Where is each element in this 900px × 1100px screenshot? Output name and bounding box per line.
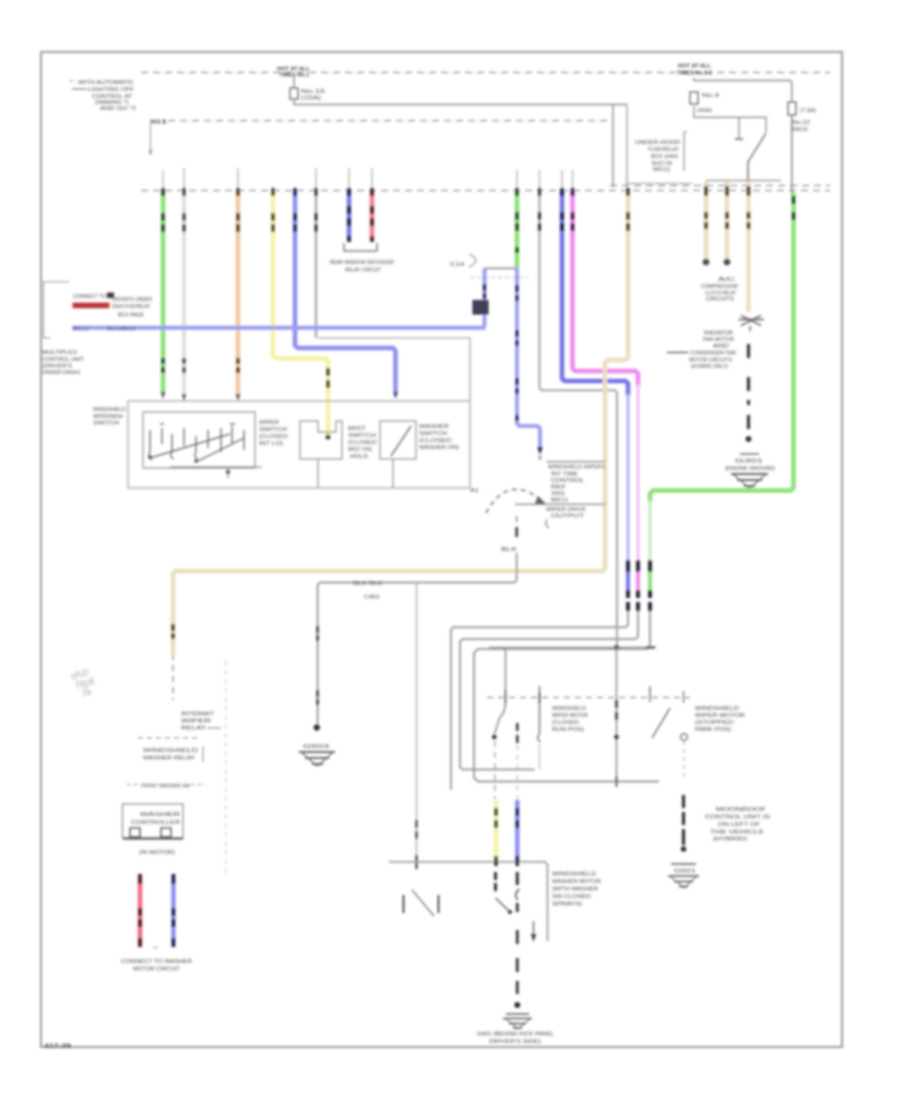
ground G301 [725,454,775,488]
svg-text:WASHER MOTOR: WASHER MOTOR [552,879,601,885]
under-hood fuse relay box outline [627,105,692,184]
wiper ground drop below micu [516,516,518,522]
wire BLU x295 bends to box3 [295,190,396,394]
washer feed text [181,712,221,732]
svg-text:BLU/BLK: BLU/BLK [107,327,136,333]
connector row dashed upper [610,185,830,187]
svg-text:ON LEFT OF: ON LEFT OF [718,822,761,828]
svg-text:FUSE/RELAY: FUSE/RELAY [648,147,679,153]
wire BLU bottom x517 [515,800,520,861]
tiny tick below pair [153,947,158,949]
svg-text:No.15: No.15 [301,89,325,95]
junction dot on bus [614,645,619,650]
end dot x727 [724,259,731,266]
box3 drop [392,459,394,488]
svg-text:(15A): (15A) [301,96,321,102]
dashes on x417 [415,820,417,869]
box1 label right [259,420,290,447]
svg-text:G401 (BEHIND KICK PANEL: G401 (BEHIND KICK PANEL [477,1032,554,1038]
blade diagonal [412,890,434,916]
svg-text:SWITCH: SWITCH [348,433,376,439]
arrow BLU into box3 [393,392,398,399]
svg-text:CONDENSER FAN: CONDENSER FAN [690,351,736,357]
junction dot washer ground [314,724,320,730]
coil dot end of YEL [325,434,330,439]
svg-text:(CLOSED:: (CLOSED: [419,438,454,444]
multiplex unit text block [42,350,85,376]
svg-text:CONTROL: CONTROL [551,478,584,484]
arrow BLU to MICU [537,447,543,455]
svg-text:No.22: No.22 [792,120,810,126]
dash on ground drop [515,527,518,537]
wire: fuse2 to connector [791,115,793,193]
svg-text:G501: G501 [674,869,696,875]
bottom switch text right [552,872,601,908]
contact dot [492,735,497,740]
wire BLU x517 lower to MICU [517,268,540,449]
wire TAN x727 [725,181,730,259]
dashes on WHT x184 [182,188,185,373]
svg-text:(WITH WASHER: (WITH WASHER [552,887,598,893]
inner box1 wiper switch [143,412,255,468]
micu block top rule [547,461,605,463]
wire BLU x349 stub pair [347,190,352,240]
svg-text:REAR WINDOW DEFOGGER: REAR WINDOW DEFOGGER [330,260,394,266]
connector row dashed main [141,190,830,192]
stub above connector x572 [572,170,574,190]
svg-text:SIG: SIG [551,491,565,497]
svg-text:WASHER ON): WASHER ON) [419,445,459,451]
svg-text:MICU): MICU) [653,167,670,173]
arrow GRN into box [161,392,166,399]
wire YEL x273 bends to box2 [273,190,328,438]
wire GRY x316 [315,190,317,338]
relay switch blade [748,133,766,162]
pin drop from switch [516,723,519,743]
svg-text:417-29: 417-29 [44,1043,71,1050]
svg-text:RUN POS): RUN POS) [552,727,584,733]
svg-text:RELAY: RELAY [181,726,207,732]
svg-text:IG1: IG1 [150,120,167,126]
dashes park switch [615,700,618,720]
svg-text:DRIVER'S UNDER: DRIVER'S UNDER [112,297,152,303]
pin 1 [130,828,140,837]
divider label row [127,784,206,790]
svg-text:RADIATOR: RADIATOR [704,331,733,337]
hot-at-all-times bus (dashed) [141,72,830,74]
dashes RED [138,874,142,947]
svg-text:FRONT WASHER SW: FRONT WASHER SW [141,784,190,790]
arrow stub below IG label [150,124,152,152]
switch assy text right [695,706,745,733]
svg-text:WASHER: WASHER [140,812,180,818]
radiator fan text block [667,331,736,371]
below-line BLU dash [516,872,519,885]
arrow WHT into box [182,394,187,401]
svg-text:INTERMIT: INTERMIT [181,712,215,718]
svg-text:RED FEED: RED FEED [75,304,105,310]
wire PNK x638 pale run [637,384,640,560]
svg-text:(HYBRID): (HYBRID) [713,837,747,843]
dashes on GRN x517 [515,188,518,253]
svg-text:(ENGINE GROUND): (ENGINE GROUND) [725,466,775,472]
svg-text:(IN MOTOR): (IN MOTOR) [139,850,175,856]
box1 contact dots [148,455,152,459]
arrow ORN into box [236,394,241,401]
svg-text:(DRIVER'S: (DRIVER'S [42,364,72,370]
box left label [93,407,126,427]
drop from bus x505 [495,648,506,735]
wire BLU bottom left [171,874,175,946]
wire TAN x628 upper [173,192,628,654]
svg-text:CONTROL UNIT IS: CONTROL UNIT IS [705,815,771,821]
dashes on washer ground [316,626,319,705]
inline connector block [473,301,488,315]
wire GRN right x793 [650,193,794,502]
connector row mid dashed [487,697,690,699]
svg-text:CIRCUITS: CIRCUITS [706,297,734,303]
dashes on GRY x316 [315,188,318,232]
svg-text:* : WITH AUTOMATIC: * : WITH AUTOMATIC [70,80,134,86]
relay contact tick [735,138,743,140]
dashes TAN x727 [725,186,728,229]
svg-text:SW CLOSED:: SW CLOSED: [552,894,592,900]
stub above connector x349 [348,168,350,190]
faint splice vertical x226 [225,661,227,876]
dashed link line [470,277,528,279]
connector dashes trio lower [628,590,650,611]
lamp ground dashes x683 [683,741,685,781]
dashes BLU bottom [516,808,519,866]
red feed arrow dot [107,293,114,299]
dashes on BLU x517 lower [515,285,518,421]
svg-text:SWITCH: SWITCH [419,431,447,437]
svg-text:DASH FUSE/RELAY: DASH FUSE/RELAY [112,304,150,310]
svg-text:SWITCH: SWITCH [259,427,287,433]
svg-text:CONNECT TO: CONNECT TO [73,294,107,300]
hook curve [516,889,520,900]
micu block bottom rule [515,503,606,505]
wire RED x372 stub pair [370,190,375,240]
wire TAN x748 [746,181,750,312]
connector bracket under pair [344,243,377,251]
svg-text:WIPER DRIVE: WIPER DRIVE [546,507,587,513]
svg-text:CONTROL UNIT: CONTROL UNIT [42,357,85,363]
svg-text:C401: C401 [364,595,380,601]
svg-text:MIST ON): MIST ON) [348,447,372,453]
svg-text:THE VEHICLE: THE VEHICLE [710,830,765,836]
svg-text:UNDER-DASH): UNDER-DASH) [42,370,80,376]
svg-text:LIGHTING OFF: LIGHTING OFF [88,87,135,93]
switch assy text mid [552,706,588,733]
wire GRY from GRN trio L3 [474,611,659,782]
svg-text:PARK POS): PARK POS) [695,727,731,733]
stub above connector x316 [315,168,317,190]
box2 label right [348,426,379,460]
svg-text:G301: G301 [735,459,763,465]
dashed arc link [486,489,544,513]
connector dashes trio upper [628,560,650,572]
svg-text:UNDER-HOOD: UNDER-HOOD [635,140,680,146]
wire PNK x572 [573,190,639,386]
svg-text:(CLOSED:: (CLOSED: [348,440,379,446]
park contact dot [614,735,619,740]
svg-text:WINDSHIELD: WINDSHIELD [695,706,739,712]
svg-text:BLK: BLK [501,547,518,553]
svg-text:WINDSHIELD: WINDSHIELD [552,706,586,712]
wire GRY x539 [540,190,618,648]
wire: drop to connector at x613 [612,105,614,188]
svg-text:G503: G503 [303,744,329,750]
dashes BLU2 [172,874,176,947]
svg-text:(CLOSED:: (CLOSED: [552,720,580,726]
micu text rows [548,465,605,504]
box3 label right [419,424,459,451]
svg-text:WIPER/WASH: WIPER/WASH [93,414,123,420]
wire BLU drop x485 [483,268,487,326]
svg-text:MOONROOF: MOONROOF [716,807,767,813]
under-hood box label [635,132,687,173]
svg-text:WINDSHIELD: WINDSHIELD [143,748,198,754]
svg-text:WIPER: WIPER [259,420,279,426]
wire YEL bottom x496 [494,800,499,861]
body connector bowtie [739,316,765,332]
svg-text:WINDSHIELD WIPERS: WINDSHIELD WIPERS [548,465,605,471]
svg-text:AND GO *2: AND GO *2 [100,106,136,112]
dashes on GRY x539 [538,188,541,231]
dot above G501 [681,846,687,852]
wire BLU x562 [562,190,628,396]
svg-text:INT LO): INT LO) [259,441,283,447]
pin bracket x539 [538,686,541,742]
washer control box [123,804,184,838]
feed bus y648 [489,647,656,649]
washer relay text [143,746,203,762]
svg-text:A1: A1 [470,488,479,494]
box3 switch blade [391,426,411,456]
relay output wire [747,161,749,181]
feed line y862 [389,862,548,941]
stub above connector x539 [539,170,541,190]
wire GRY from BLU trio L1 [451,611,628,790]
trio mid segments [626,572,630,590]
relay coil branch [694,106,739,138]
box1 internal contacts [149,424,244,462]
top-left note text block [70,80,136,112]
bus end tick [646,646,655,648]
svg-text:(HYBRID ONLY): (HYBRID ONLY) [691,364,728,370]
svg-text:SWITCH: SWITCH [93,421,119,427]
dashes on BLU x562 [560,188,564,231]
svg-text:TIMES No.3-2: TIMES No.3-2 [677,71,712,77]
wire GRY from PNK trio L2 [460,611,638,770]
svg-text:MULTIPLEX: MULTIPLEX [42,350,77,356]
switch blade yellow leg [496,898,512,913]
dashes on GRN x793 [792,196,795,220]
bus drop with dot [227,467,229,478]
svg-text:BOX PAGE: BOX PAGE [118,313,144,319]
ground G501 [668,864,699,888]
tick x539 [539,692,541,703]
red feed bar [73,303,110,309]
tick x683 [683,691,685,703]
wire GRN x650 pale run [649,500,652,560]
svg-text:MICU: MICU [551,498,568,504]
branch bracket left [44,282,70,338]
ground G503 [299,744,335,766]
below-line dashes YEL [494,872,497,891]
park switch x616 [616,648,618,782]
dashes on GRN x163 [161,188,164,373]
svg-text:SPRAYS): SPRAYS) [552,902,582,908]
stub above connector x562 [561,170,563,190]
svg-text:BACK: BACK [792,127,808,133]
dashes on YEL [273,188,328,388]
wire: fuse to IG bus [294,99,627,105]
stub above connector x184 [183,168,185,190]
svg-text:WASHER RELAY: WASHER RELAY [143,756,196,762]
dashes YEL bottom [494,808,497,866]
arc arrowhead [535,496,546,504]
outer box [128,401,470,488]
svg-text:C14: C14 [450,262,464,268]
stub above connector x163 [162,170,164,190]
ground G401 [503,1014,532,1029]
wire GRN x517 upper [515,190,520,268]
svg-text:DRIVER'S SIDE): DRIVER'S SIDE) [489,1039,541,1045]
fuse F3 on branch [690,92,698,104]
svg-text:OUTPUT: OUTPUT [551,514,585,520]
svg-text:RELAY CIRCUIT: RELAY CIRCUIT [345,268,382,274]
wire ORN x238 [236,190,241,396]
svg-text:AND: AND [713,344,729,350]
TAN fade to dashed gray [172,654,174,700]
svg-text:WASHER: WASHER [419,424,449,430]
IG dashed bus [168,120,613,122]
ac compressor text block [701,277,738,303]
wire TAN x706 [704,181,709,259]
ground wire dashes to G [516,903,519,994]
svg-text:WINDSHIELD: WINDSHIELD [93,407,126,413]
junction dot ground wire [746,436,752,442]
box2 drop [317,459,319,488]
wire BLK dashed x748 [747,344,750,429]
pin 2 [161,828,171,837]
dashes TAN x706 [704,186,707,229]
link from pin to L2 [539,744,541,770]
moonroof text block [705,807,771,843]
dashed connector left y738 [138,737,201,739]
svg-text:INT TIME: INT TIME [551,472,579,478]
svg-text:REF: REF [551,485,567,491]
svg-text:(CLOSED:: (CLOSED: [259,434,290,440]
arrow into label [533,921,535,936]
wire: left fuse drop from bus [293,74,295,88]
dashes on ORN x238 [236,188,239,373]
wire BLU x628 pale run [627,394,630,560]
svg-text:HOLD: HOLD [350,454,368,460]
svg-text:BLU: BLU [73,327,89,333]
svg-text:HOT AT ALL: HOT AT ALL [678,64,712,70]
svg-text:WIPER MOTOR: WIPER MOTOR [695,713,745,719]
end dot x706 [703,259,710,266]
long BLU wire horizontal [72,326,486,330]
link wire y268 [485,267,518,269]
dashes on TAN [173,188,628,639]
wire GRN x163 [161,190,166,394]
dashes on BLU x349 [347,188,351,242]
svg-text:BOX (HAS: BOX (HAS [651,154,678,160]
wire: right fuse feed from bus label [694,78,792,102]
svg-text:(STOPPED:: (STOPPED: [695,720,735,726]
svg-text:FAN MOTOR: FAN MOTOR [703,337,734,343]
dashes on BLU x485 [483,284,486,299]
left contact pair [404,895,439,913]
wire RED bottom left [138,874,142,946]
svg-text:CONTROLLER: CONTROLLER [131,820,180,826]
selector blade x650 [649,686,651,702]
svg-text:WINDSHIELD: WINDSHIELD [552,872,596,878]
fuse F2 (7.5A) [788,102,796,115]
connector bracket C [469,254,476,267]
stub above connector x517 [516,170,518,190]
dashes on PNK x572 [571,188,575,231]
box bottom heavy [123,837,183,839]
tick crossing y781 [616,776,618,787]
stub above connector x238 [237,168,239,190]
svg-text:No.4: No.4 [702,93,719,99]
svg-text:(7.5A): (7.5A) [800,108,816,114]
faint link pin to BLU [516,745,518,799]
relay output bus [706,180,781,182]
tick x505 [505,690,507,704]
wire: drop to connector at x627 [626,105,628,188]
dot above ground [514,1002,520,1008]
box1 bottom bus [170,466,262,468]
dashes on BLU x295 [293,188,296,232]
micu hook mark [546,519,549,528]
svg-text:A/C: A/C [718,277,735,283]
svg-text:CONNECT TO WASHER: CONNECT TO WASHER [121,959,192,965]
dashes TAN x748 [747,186,750,229]
fuse F1 (15A) [290,88,298,99]
svg-text:WIPER MOTOR: WIPER MOTOR [552,713,588,719]
svg-text:(40A): (40A) [697,108,712,114]
wire WHT x184 [182,190,186,396]
svg-text:MIST: MIST [348,426,367,432]
lamp circle [681,734,688,741]
ground path to washer ground [318,553,517,724]
illumination drop x417 [416,583,418,861]
svg-text:BLK BLK: BLK BLK [353,581,384,587]
box right extension [318,338,470,401]
inner box3 washer switch [380,421,416,459]
dashes on RED x372 [370,188,374,242]
svg-text:COMPRESSOR: COMPRESSOR [701,284,738,290]
svg-text:WIPER: WIPER [181,719,211,725]
svg-text:MOTOR CIRCUIT: MOTOR CIRCUIT [133,967,181,973]
stub above connector x372 [371,168,373,190]
inner box2 washer relay coil [300,421,342,459]
relay fixed contact [757,117,766,132]
dashed drop to washer sw [494,741,496,799]
svg-text:MOTOR CIRCUITS: MOTOR CIRCUITS [689,358,732,364]
